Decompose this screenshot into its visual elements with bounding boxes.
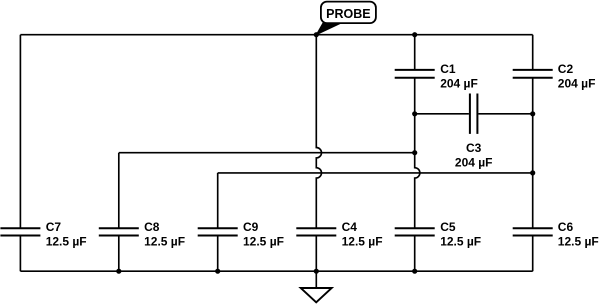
node wire A right (412, 150, 417, 155)
wire bottom rail (20, 270, 532, 272)
capacitor C2 (513, 62, 596, 90)
wire probe vertical with hops (316, 35, 321, 272)
svg-text:C8: C8 (144, 220, 160, 234)
svg-text:12.5 µF: 12.5 µF (440, 235, 481, 249)
capacitor C7 (0, 220, 86, 249)
node bottom C9 (215, 269, 220, 274)
wire C3 horizontal (415, 113, 533, 115)
svg-text:C2: C2 (558, 62, 574, 76)
svg-text:204 µF: 204 µF (455, 156, 493, 170)
node junction top C1 (412, 32, 417, 37)
node wire B right (530, 170, 535, 175)
svg-text:C9: C9 (243, 220, 259, 234)
svg-text:12.5 µF: 12.5 µF (144, 235, 185, 249)
wire left rail (19, 35, 21, 272)
node bottom C5 (412, 269, 417, 274)
node C3 left (412, 111, 417, 116)
svg-text:204 µF: 204 µF (558, 76, 596, 90)
svg-text:C3: C3 (466, 141, 482, 155)
svg-text:C6: C6 (558, 220, 574, 234)
node probe junction (314, 32, 319, 37)
capacitor C4 (296, 220, 382, 249)
wire A horizontal (119, 152, 415, 154)
node bottom C4 (314, 269, 319, 274)
wire right rail (532, 35, 534, 272)
capacitor C5 (395, 220, 481, 249)
svg-text:C5: C5 (440, 220, 456, 234)
wire B horizontal (218, 172, 533, 174)
svg-text:12.5 µF: 12.5 µF (342, 235, 383, 249)
svg-text:C1: C1 (440, 62, 456, 76)
capacitor C3 (455, 94, 493, 170)
svg-text:12.5 µF: 12.5 µF (558, 235, 599, 249)
wire C9 vertical (217, 173, 219, 271)
svg-text:12.5 µF: 12.5 µF (46, 235, 87, 249)
svg-text:PROBE: PROBE (326, 7, 370, 21)
svg-text:C7: C7 (46, 220, 62, 234)
svg-text:C4: C4 (342, 220, 358, 234)
ground (301, 271, 332, 302)
wire top rail (20, 34, 532, 36)
svg-text:204 µF: 204 µF (440, 76, 478, 90)
probe label PROBE (316, 2, 376, 35)
node bottom C8 (116, 269, 121, 274)
capacitor C9 (198, 220, 284, 249)
svg-text:12.5 µF: 12.5 µF (243, 235, 284, 249)
node C3 right (530, 111, 535, 116)
capacitor C1 (395, 62, 478, 90)
wire C1-C5 vertical with hop (415, 35, 420, 272)
wire C8 vertical (118, 153, 120, 272)
capacitor C6 (513, 220, 599, 249)
capacitor C8 (99, 220, 185, 249)
